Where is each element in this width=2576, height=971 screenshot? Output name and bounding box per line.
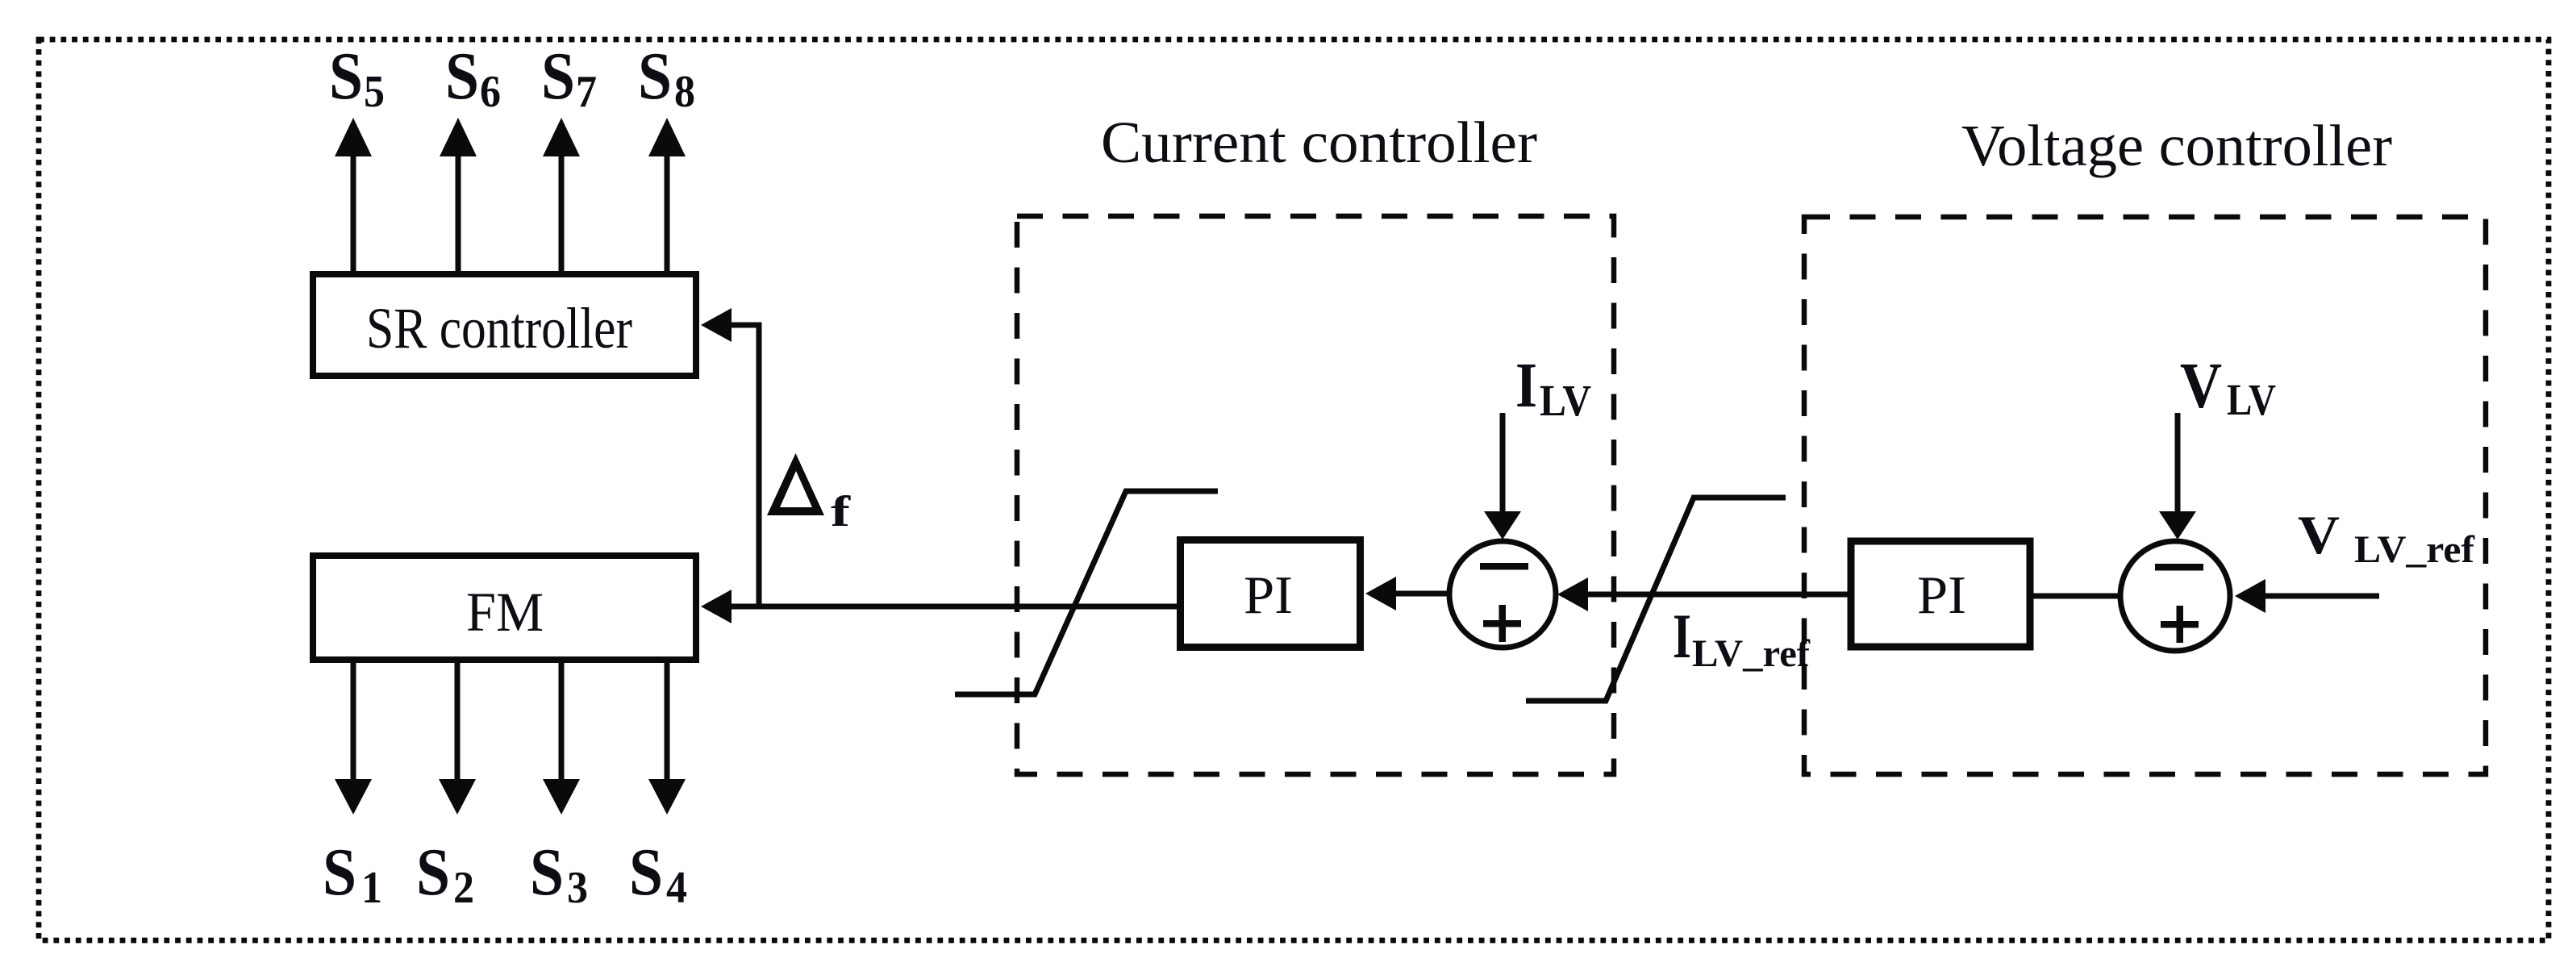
svg-text:5: 5 (364, 67, 385, 117)
svg-text:I: I (1515, 351, 1537, 421)
wire S4 output (665, 663, 670, 782)
svg-text:f: f (831, 487, 851, 536)
Current controller dashed box (1017, 216, 1614, 774)
label delta_f (767, 453, 851, 536)
svg-text:PI: PI (1917, 565, 1966, 625)
arrowhead I_LV into junction 1 (1484, 511, 1521, 540)
wire S8 output (665, 153, 670, 271)
wire S3 output (559, 663, 565, 782)
svg-text:S: S (629, 835, 663, 910)
svg-text:LV: LV (1540, 376, 1591, 425)
arrowhead S4 (648, 779, 686, 815)
svg-text:6: 6 (480, 67, 501, 117)
svg-text:3: 3 (567, 863, 588, 913)
wire V_LV input (2175, 413, 2181, 513)
arrowhead V_LV into junction 2 (2159, 511, 2196, 540)
arrowhead S6 (440, 118, 477, 156)
svg-text:2: 2 (453, 863, 474, 913)
arrowhead into junction 1 (1557, 577, 1588, 611)
wire I_LV_ref into junction 1 (1582, 592, 1849, 598)
svg-text:S: S (416, 835, 450, 910)
svg-text:S: S (445, 39, 479, 114)
svg-text:S: S (329, 39, 363, 114)
arrowhead into FM (701, 590, 732, 623)
arrowhead S2 (439, 779, 476, 815)
wire S5 output (351, 153, 356, 271)
svg-text:I: I (1673, 601, 1691, 671)
summing junction 1 (1449, 541, 1556, 648)
wire summing junction 2 to PI (2033, 594, 2120, 599)
saturation limiter block 1 (955, 491, 1218, 694)
svg-text:SR controller: SR controller (366, 296, 632, 360)
arrowhead S7 (543, 118, 580, 156)
arrowhead S5 (335, 118, 372, 156)
wire vertical delta_f (757, 323, 762, 606)
arrowhead into PI (1365, 577, 1396, 611)
wire S7 output (559, 153, 565, 271)
svg-text:LV: LV (2227, 375, 2276, 424)
svg-text:S: S (323, 835, 356, 910)
wire I_LV input (1500, 413, 1506, 513)
saturation limiter block 2 (1526, 498, 1786, 701)
wire summing junction 1 to PI (1394, 591, 1449, 597)
svg-text:LV_ref: LV_ref (2354, 528, 2475, 571)
arrowhead into junction 2 (2235, 579, 2265, 613)
svg-text:Voltage controller: Voltage controller (1961, 113, 2392, 178)
arrowhead S8 (648, 118, 686, 156)
svg-text:S: S (638, 39, 672, 114)
svg-text:S: S (530, 835, 564, 910)
summing junction 2 (2120, 541, 2230, 651)
arrowhead S1 (335, 779, 372, 815)
svg-text:PI: PI (1244, 565, 1293, 625)
wire main line from current PI to FM (728, 604, 1179, 610)
wire S2 output (455, 663, 461, 782)
svg-text:1: 1 (361, 863, 382, 913)
SR controller box U1 (313, 274, 696, 376)
svg-text:Current controller: Current controller (1101, 110, 1537, 175)
Voltage controller dashed box (1804, 217, 2486, 774)
wire V_LV_ref into junction 2 (2261, 594, 2379, 599)
svg-text:LV_ref: LV_ref (1692, 632, 1811, 675)
svg-text:S: S (541, 39, 575, 114)
svg-text:V: V (2298, 504, 2340, 565)
wire delta_f feed into SR controller (728, 323, 761, 328)
plus sign junction 2 (2161, 621, 2199, 628)
svg-text:8: 8 (674, 67, 695, 117)
svg-text:7: 7 (576, 67, 597, 117)
minus sign junction 2 (2155, 564, 2203, 571)
arrowhead into SR controller (701, 308, 732, 342)
PI box U3 (1181, 540, 1361, 648)
plus sign junction 1 (1483, 620, 1521, 627)
arrowhead S3 (543, 779, 580, 815)
minus sign junction 1 (1480, 563, 1528, 570)
svg-text:4: 4 (666, 863, 687, 913)
wire S1 output (351, 663, 356, 782)
svg-text:V: V (2180, 351, 2222, 422)
svg-text:FM: FM (466, 581, 544, 643)
wire S6 output (456, 153, 461, 271)
PI box U4 (1851, 541, 2030, 647)
FM box U2 (313, 556, 696, 660)
